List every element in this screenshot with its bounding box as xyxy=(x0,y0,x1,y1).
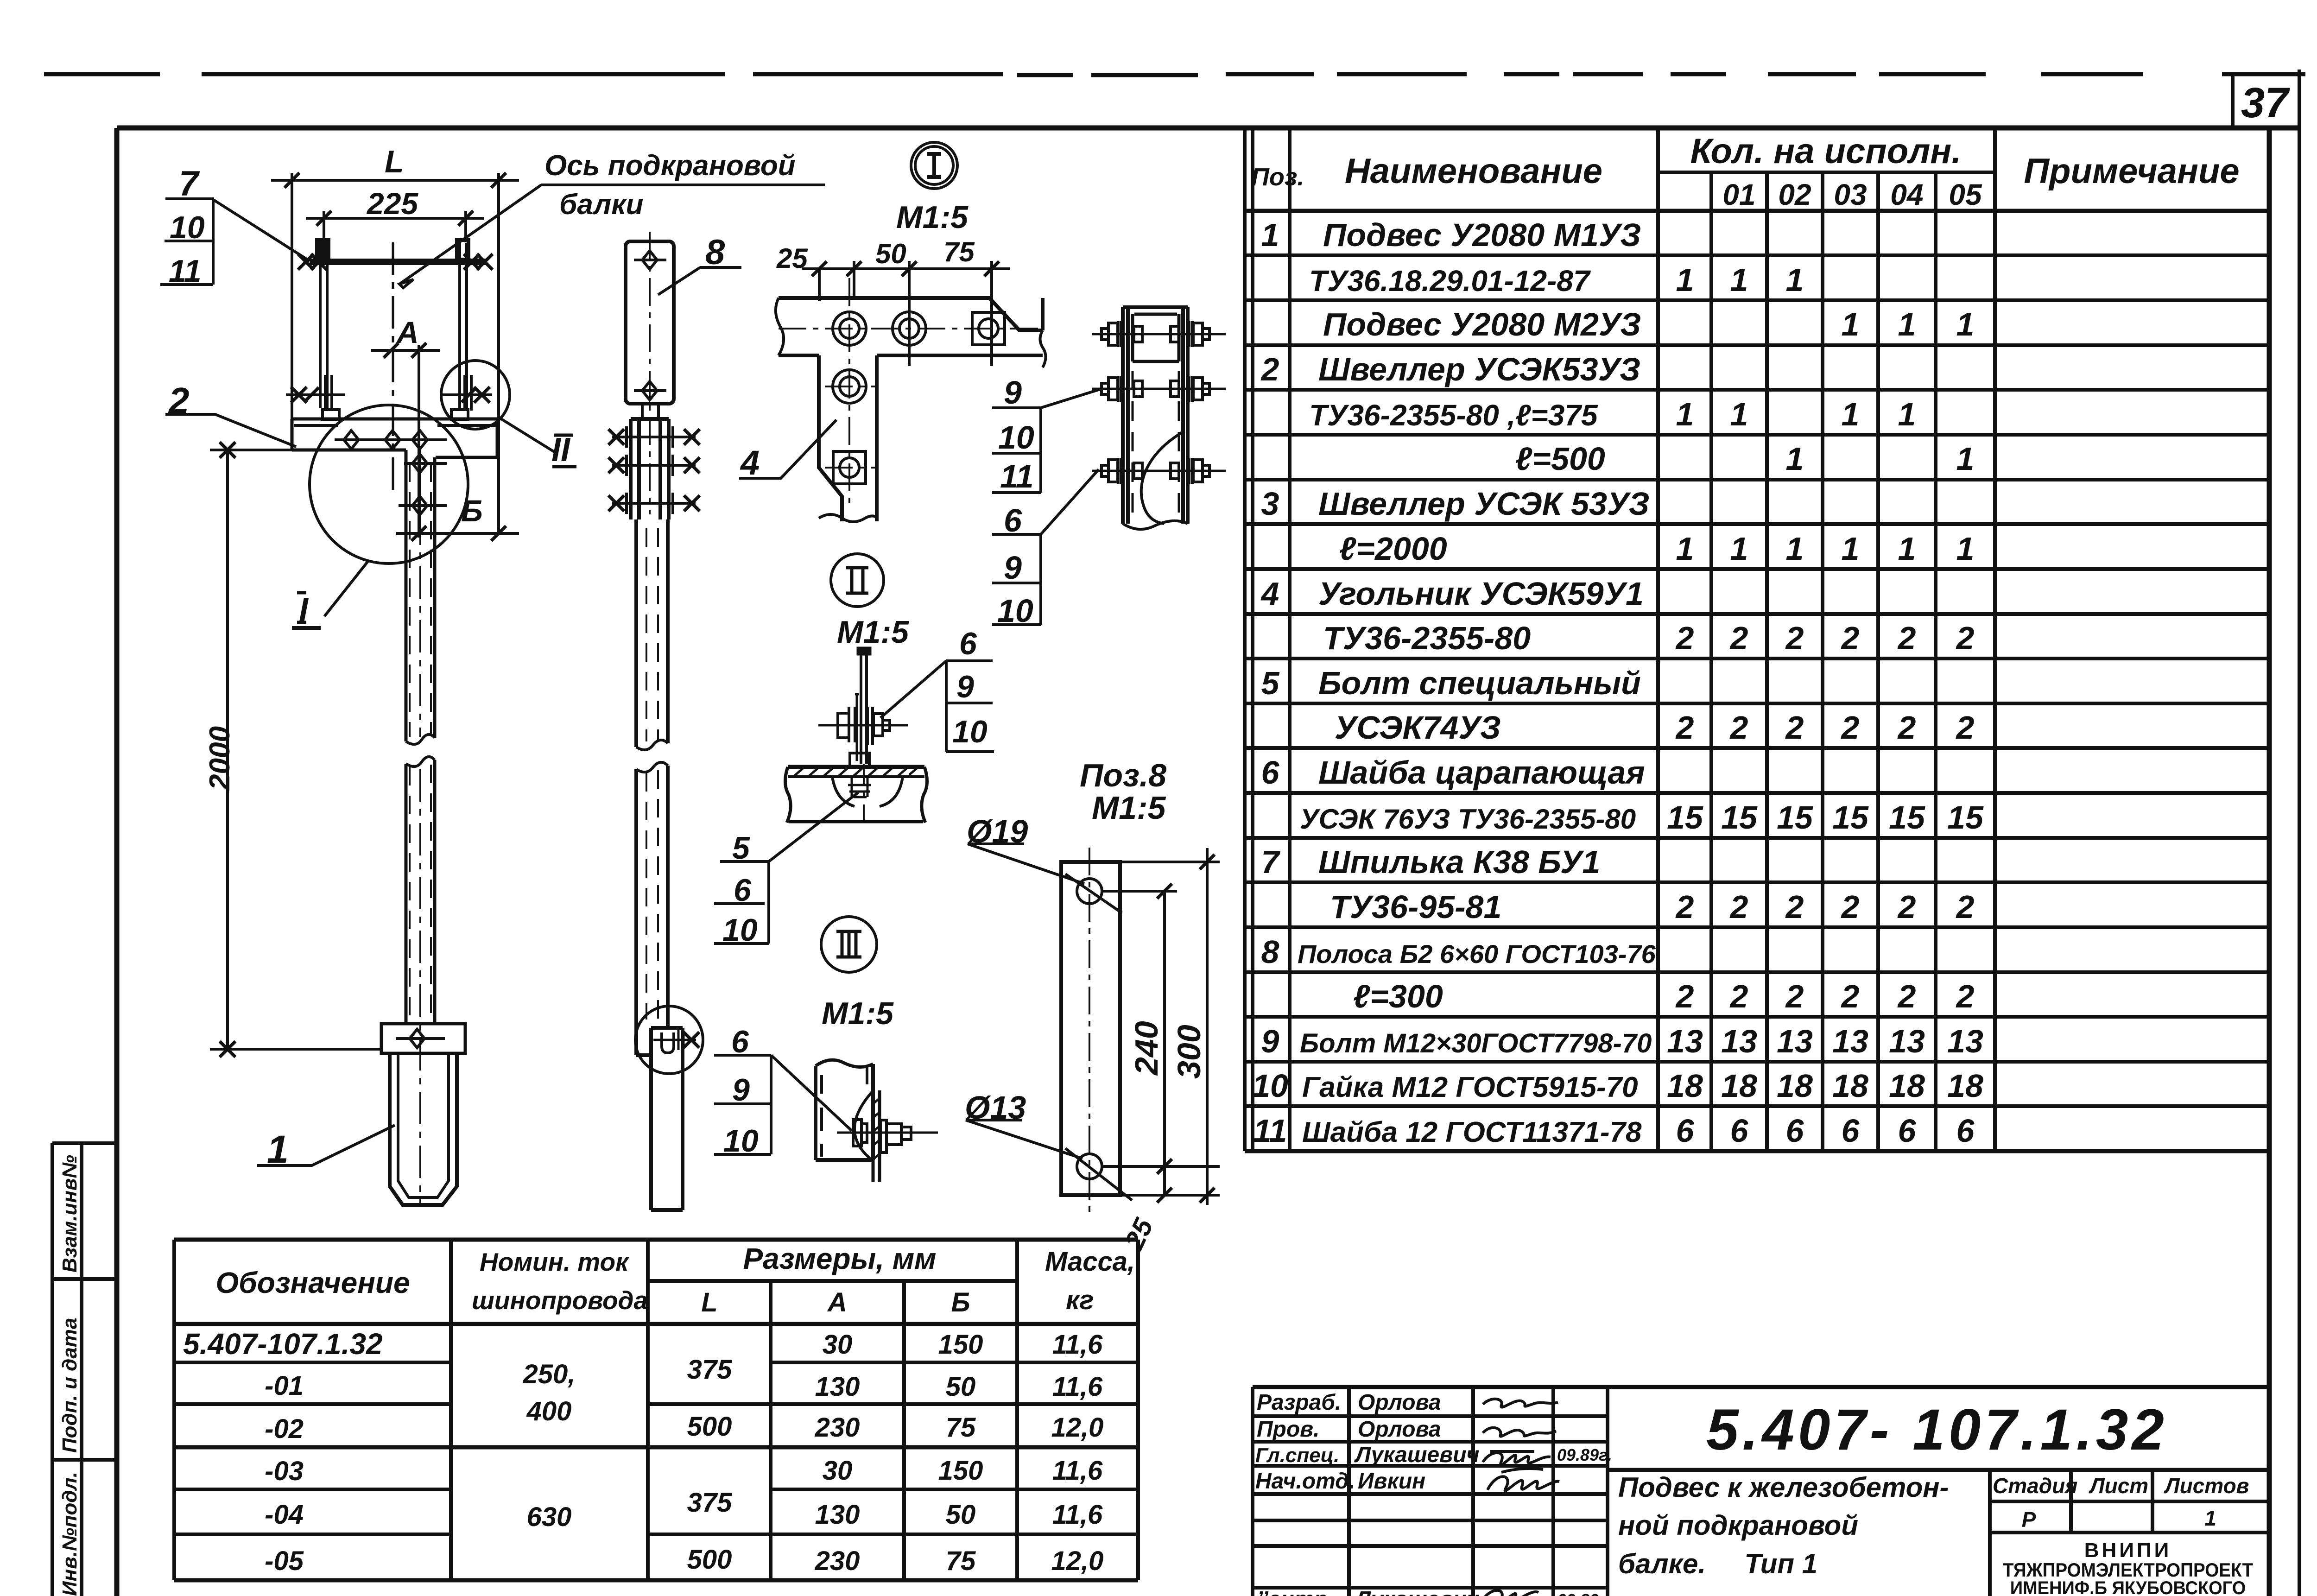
svg-text:01: 01 xyxy=(1722,178,1755,211)
svg-text:2000: 2000 xyxy=(204,726,236,791)
svg-text:Шайба царапающая: Шайба царапающая xyxy=(1318,754,1645,791)
svg-text:1: 1 xyxy=(2204,1506,2216,1530)
svg-text:13: 13 xyxy=(1832,1023,1868,1059)
svg-text:-03: -03 xyxy=(265,1456,304,1486)
symbol xyxy=(911,142,957,189)
svg-text:Орлова: Орлова xyxy=(1358,1390,1441,1415)
svg-text:150: 150 xyxy=(938,1456,983,1486)
svg-text:Угольник УСЭК59У1: Угольник УСЭК59У1 xyxy=(1318,576,1644,612)
svg-text:11,6: 11,6 xyxy=(1052,1330,1103,1360)
svg-text:2: 2 xyxy=(1841,620,1860,656)
svg-text:150: 150 xyxy=(938,1330,983,1360)
svg-text:А: А xyxy=(827,1287,847,1317)
svg-text:М1:5: М1:5 xyxy=(1092,790,1166,826)
svg-text:9: 9 xyxy=(1261,1023,1279,1059)
svg-text:18: 18 xyxy=(1947,1068,1983,1104)
svg-text:Гл.спец.: Гл.спец. xyxy=(1255,1444,1339,1467)
svg-text:375: 375 xyxy=(687,1355,733,1385)
svg-text:3: 3 xyxy=(1261,486,1279,522)
svg-text:Полоса Б2 6×60 ГОСТ103-76: Полоса Б2 6×60 ГОСТ103-76 xyxy=(1298,939,1656,969)
svg-text:15: 15 xyxy=(1947,799,1984,836)
svg-text:13: 13 xyxy=(1947,1023,1983,1059)
svg-text:балки: балки xyxy=(559,189,644,221)
svg-text:75: 75 xyxy=(943,236,975,267)
shelf holes xyxy=(335,431,447,524)
svg-text:ной подкрановой: ной подкрановой xyxy=(1618,1510,1858,1541)
labels 6/9/10 xyxy=(714,1055,852,1154)
svg-text:2: 2 xyxy=(1841,709,1860,746)
svg-text:375: 375 xyxy=(687,1488,733,1518)
dims 25 50 75 xyxy=(802,261,1010,366)
svg-text:10: 10 xyxy=(997,593,1033,629)
svg-text:1: 1 xyxy=(1261,217,1279,253)
svg-text:225: 225 xyxy=(366,186,418,221)
svg-text:ТУ36-2355-80 ,ℓ=375: ТУ36-2355-80 ,ℓ=375 xyxy=(1309,399,1598,432)
svg-text:1: 1 xyxy=(1842,396,1860,432)
svg-text:6: 6 xyxy=(1676,1113,1695,1149)
view mark I xyxy=(292,626,321,630)
svg-text:Инв.№подл.: Инв.№подл. xyxy=(58,1472,81,1596)
svg-text:Размеры, мм: Размеры, мм xyxy=(743,1242,936,1275)
svg-text:03: 03 xyxy=(1834,178,1867,211)
label 2 leader xyxy=(165,414,296,447)
svg-text:18: 18 xyxy=(1777,1068,1813,1104)
svg-text:1: 1 xyxy=(1786,531,1804,567)
svg-text:6: 6 xyxy=(959,626,977,661)
svg-text:ℓ=500: ℓ=500 xyxy=(1515,441,1605,477)
svg-text:Швеллер УСЭК53УЗ: Швеллер УСЭК53УЗ xyxy=(1318,351,1640,387)
svg-text:15: 15 xyxy=(1832,799,1869,836)
svg-text:9: 9 xyxy=(732,1072,750,1108)
svg-text:II: II xyxy=(551,431,571,469)
svg-text:13: 13 xyxy=(1721,1023,1757,1059)
neck xyxy=(642,404,658,419)
svg-text:09.89г: 09.89г xyxy=(1557,1590,1608,1596)
svg-text:15: 15 xyxy=(1721,799,1758,836)
hanger channel side xyxy=(636,519,668,1055)
svg-text:Листов: Листов xyxy=(2164,1474,2249,1498)
svg-text:1: 1 xyxy=(1842,531,1860,567)
svg-text:Ивкин: Ивкин xyxy=(1358,1469,1425,1494)
crater arc xyxy=(855,1092,872,1159)
hanger channel (pos 3) xyxy=(406,450,435,1205)
svg-text:13: 13 xyxy=(1889,1023,1925,1059)
svg-text:02: 02 xyxy=(1778,178,1811,211)
svg-text:10: 10 xyxy=(1252,1068,1288,1104)
svg-text:Гайка М12 ГОСТ5915-70: Гайка М12 ГОСТ5915-70 xyxy=(1302,1071,1638,1103)
svg-text:1: 1 xyxy=(1730,531,1748,567)
svg-text:Стадия: Стадия xyxy=(1993,1474,2077,1498)
svg-text:630: 630 xyxy=(527,1502,572,1532)
svg-text:М1:5: М1:5 xyxy=(896,200,969,235)
svg-text:1: 1 xyxy=(1786,262,1804,298)
svg-text:Р: Р xyxy=(2022,1507,2036,1532)
svg-text:6: 6 xyxy=(1730,1113,1749,1149)
svg-text:30: 30 xyxy=(823,1330,853,1360)
crater arcs and nut below flange xyxy=(832,777,903,806)
svg-text:18: 18 xyxy=(1667,1068,1703,1104)
strip pos 8 bottom xyxy=(651,1028,683,1210)
svg-text:2: 2 xyxy=(1675,889,1694,925)
svg-text:Швеллер УСЭК 53УЗ: Швеллер УСЭК 53УЗ xyxy=(1318,486,1650,522)
svg-text:15: 15 xyxy=(1667,799,1703,836)
svg-text:4: 4 xyxy=(740,443,760,482)
svg-text:2: 2 xyxy=(1897,709,1916,746)
svg-text:кг: кг xyxy=(1066,1285,1094,1315)
label 1 leader xyxy=(257,1125,395,1165)
svg-text:2: 2 xyxy=(1956,889,1975,925)
svg-text:6: 6 xyxy=(1786,1113,1804,1149)
svg-text:Примечание: Примечание xyxy=(2024,152,2239,191)
bolts xyxy=(833,312,1005,484)
svg-text:УСЭК 76УЗ ТУ36-2355-80: УСЭК 76УЗ ТУ36-2355-80 xyxy=(1300,804,1636,835)
svg-text:Болт М12×30ГОСТ7798-70: Болт М12×30ГОСТ7798-70 xyxy=(1300,1028,1652,1058)
U hook (pos 1) xyxy=(390,1053,457,1205)
svg-text:Масса,: Масса, xyxy=(1045,1247,1135,1277)
svg-text:2: 2 xyxy=(1675,620,1694,656)
svg-text:6: 6 xyxy=(1842,1113,1860,1149)
svg-text:8: 8 xyxy=(705,233,725,272)
svg-text:9: 9 xyxy=(956,669,974,704)
svg-text:Подвес У2080 М2УЗ: Подвес У2080 М2УЗ xyxy=(1323,306,1641,342)
svg-text:9: 9 xyxy=(1004,374,1022,411)
svg-text:Номин. ток: Номин. ток xyxy=(480,1248,630,1276)
scratching washer plate xyxy=(873,1090,880,1182)
svg-text:2: 2 xyxy=(1841,978,1860,1014)
svg-text:1: 1 xyxy=(1956,306,1975,342)
svg-text:2: 2 xyxy=(1897,889,1916,925)
svg-text:15: 15 xyxy=(1889,799,1925,836)
svg-text:12,0: 12,0 xyxy=(1051,1412,1104,1443)
svg-text:М1:5: М1:5 xyxy=(822,996,894,1031)
svg-text:7: 7 xyxy=(1261,844,1281,880)
svg-text:ИМЕНИФ.Б ЯКУБОВСКОГО: ИМЕНИФ.Б ЯКУБОВСКОГО xyxy=(2010,1578,2246,1596)
clamp plate at bottom (pos 1 top) xyxy=(381,1024,465,1053)
detail circle I xyxy=(310,405,468,564)
svg-text:1: 1 xyxy=(1898,531,1916,567)
axis leader xyxy=(399,185,541,288)
svg-text:Наименование: Наименование xyxy=(1345,152,1602,191)
svg-text:1: 1 xyxy=(1956,441,1975,477)
svg-text:Подвес к железобетон-: Подвес к железобетон- xyxy=(1618,1472,1949,1503)
svg-text:1: 1 xyxy=(1956,531,1975,567)
svg-text:11,6: 11,6 xyxy=(1052,1500,1103,1530)
label box 7/10/11 xyxy=(160,199,310,285)
svg-text:18: 18 xyxy=(1832,1068,1868,1104)
svg-text:L: L xyxy=(385,144,404,179)
stud rod right (pos 7) xyxy=(457,240,468,408)
dim A xyxy=(371,343,440,538)
svg-text:2: 2 xyxy=(1260,351,1279,387)
svg-text:2: 2 xyxy=(1897,620,1916,656)
svg-text:1: 1 xyxy=(1898,396,1916,432)
scratching washer prong (pos 6) xyxy=(855,693,859,761)
svg-text:ТУ36-2355-80: ТУ36-2355-80 xyxy=(1323,620,1531,656)
svg-text:2: 2 xyxy=(1785,709,1804,746)
bolts M12 rows xyxy=(1092,334,1226,471)
svg-text:8: 8 xyxy=(1261,934,1279,970)
svg-text:400: 400 xyxy=(526,1396,572,1426)
svg-text:2: 2 xyxy=(1729,978,1748,1014)
svg-text:Болт специальный: Болт специальный xyxy=(1318,665,1641,701)
svg-text:05: 05 xyxy=(1949,178,1982,211)
svg-text:10: 10 xyxy=(723,1123,759,1159)
title block text xyxy=(1255,1390,1612,1596)
svg-text:30: 30 xyxy=(823,1456,853,1486)
svg-text:Подп. и дата: Подп. и дата xyxy=(58,1318,81,1453)
joint sleeve channels xyxy=(1123,307,1188,524)
svg-text:2: 2 xyxy=(1785,978,1804,1014)
svg-text:Поз.8: Поз.8 xyxy=(1080,757,1166,793)
svg-text:5.407- 107.1.32: 5.407- 107.1.32 xyxy=(1706,1398,2168,1462)
svg-text:10: 10 xyxy=(722,912,758,948)
svg-text:230: 230 xyxy=(815,1546,860,1576)
svg-text:4: 4 xyxy=(1260,576,1279,612)
svg-text:04: 04 xyxy=(1890,178,1923,211)
labels 5/6/10 xyxy=(714,792,858,944)
svg-text:Кол. на исполн.: Кол. на исполн. xyxy=(1690,132,1962,171)
svg-text:11: 11 xyxy=(1000,458,1034,494)
svg-text:5: 5 xyxy=(1261,665,1280,701)
svg-text:М1:5: М1:5 xyxy=(837,614,909,650)
svg-text:2: 2 xyxy=(1841,889,1860,925)
svg-text:6: 6 xyxy=(1261,754,1280,791)
svg-text:Ось подкрановой: Ось подкрановой xyxy=(544,150,796,182)
dim 2000 xyxy=(210,442,381,1057)
svg-text:-01: -01 xyxy=(265,1371,304,1401)
svg-text:10: 10 xyxy=(170,210,205,245)
svg-text:25: 25 xyxy=(776,243,808,274)
svg-text:Орлова: Орлова xyxy=(1358,1417,1441,1442)
svg-text:Пров.: Пров. xyxy=(1257,1417,1320,1442)
svg-text:13: 13 xyxy=(1777,1023,1813,1059)
svg-text:7: 7 xyxy=(179,164,200,203)
svg-text:Б: Б xyxy=(461,494,483,528)
detail circle III on view xyxy=(635,1006,703,1074)
channel head with bolts xyxy=(631,419,669,519)
lower clamp nut xyxy=(850,753,869,767)
svg-text:11,6: 11,6 xyxy=(1052,1372,1103,1402)
svg-text:9: 9 xyxy=(1004,550,1022,586)
svg-text:2: 2 xyxy=(1785,889,1804,925)
svg-text:Поз.: Поз. xyxy=(1251,163,1304,191)
svg-text:6: 6 xyxy=(1004,502,1022,538)
svg-text:-04: -04 xyxy=(265,1500,304,1530)
svg-text:75: 75 xyxy=(946,1412,976,1443)
svg-text:2: 2 xyxy=(1956,978,1975,1014)
dim 225 xyxy=(306,211,484,242)
shelf channel (pos 2) xyxy=(292,419,497,457)
svg-text:А: А xyxy=(396,315,419,349)
svg-text:130: 130 xyxy=(815,1500,860,1530)
svg-text:230: 230 xyxy=(815,1412,860,1443)
svg-text:12,0: 12,0 xyxy=(1051,1546,1104,1576)
svg-text:1: 1 xyxy=(1786,441,1804,477)
svg-text:250,: 250, xyxy=(523,1359,576,1389)
table body text xyxy=(1252,217,1984,1149)
svg-text:1: 1 xyxy=(1898,306,1916,342)
svg-text:-02: -02 xyxy=(265,1414,304,1444)
svg-text:18: 18 xyxy=(1889,1068,1925,1104)
svg-text:2: 2 xyxy=(1729,709,1748,746)
nut+washer assembly right (pos 6,9,10) xyxy=(441,375,492,420)
svg-text:2: 2 xyxy=(1956,620,1975,656)
labels 9/10/11 xyxy=(992,389,1100,493)
nut cluster on bolt xyxy=(818,724,908,727)
svg-text:500: 500 xyxy=(687,1412,732,1442)
dim B xyxy=(396,526,519,541)
svg-text:6: 6 xyxy=(1956,1113,1975,1149)
detail circle II xyxy=(441,361,510,429)
dim L xyxy=(271,173,519,533)
svg-text:75: 75 xyxy=(946,1546,976,1576)
plate pos 8 xyxy=(626,241,674,404)
signatures (script squiggles) xyxy=(1483,1399,1559,1596)
svg-text:11: 11 xyxy=(1253,1113,1287,1149)
svg-text:10: 10 xyxy=(998,419,1034,456)
svg-text:50: 50 xyxy=(875,238,906,269)
svg-text:2: 2 xyxy=(1675,709,1694,746)
beam axis centerline xyxy=(392,242,394,491)
svg-text:Обозначение: Обозначение xyxy=(215,1266,410,1299)
svg-text:240: 240 xyxy=(1128,1021,1165,1076)
svg-text:Б: Б xyxy=(951,1287,970,1317)
dims xyxy=(1165,848,1207,1205)
svg-text:1: 1 xyxy=(1676,531,1694,567)
svg-text:ТУ36-95-81: ТУ36-95-81 xyxy=(1330,889,1501,925)
svg-text:Лукашевич: Лукашевич xyxy=(1354,1443,1480,1467)
sheet number box 37 xyxy=(2233,70,2299,1596)
svg-text:500: 500 xyxy=(687,1545,732,1575)
channel piece xyxy=(816,1064,873,1160)
svg-text:2: 2 xyxy=(1956,709,1975,746)
svg-text:11,6: 11,6 xyxy=(1052,1456,1103,1486)
bolt xyxy=(837,1132,938,1134)
svg-text:2: 2 xyxy=(1675,978,1694,1014)
svg-text:Ø13: Ø13 xyxy=(965,1089,1026,1126)
svg-text:6: 6 xyxy=(1898,1113,1917,1149)
top scan broken line xyxy=(44,74,2305,75)
svg-text:Разраб.: Разраб. xyxy=(1257,1390,1341,1415)
labels 6/9/10 right of detail II xyxy=(880,661,994,752)
bottom bolt with scratching washer xyxy=(653,1039,696,1041)
svg-text:5: 5 xyxy=(732,830,750,866)
angle piece xyxy=(779,298,1043,521)
svg-text:балке. Тип 1: балке. Тип 1 xyxy=(1618,1548,1817,1579)
svg-text:Ø19: Ø19 xyxy=(967,813,1028,849)
stud rod left (pos 7) xyxy=(317,240,329,408)
svg-text:10: 10 xyxy=(952,714,988,749)
svg-text:5.407-107.1.32: 5.407-107.1.32 xyxy=(183,1327,383,1361)
svg-text:ℓ=2000: ℓ=2000 xyxy=(1339,531,1447,567)
svg-text:6: 6 xyxy=(734,873,752,908)
special bolt shaft (pos 5) xyxy=(861,651,867,764)
svg-text:2: 2 xyxy=(1729,889,1748,925)
svg-text:300: 300 xyxy=(1171,1025,1207,1079)
bottom-left table text xyxy=(183,1242,1135,1576)
svg-text:50: 50 xyxy=(946,1372,976,1402)
svg-text:2: 2 xyxy=(168,380,190,421)
crane beam flange bar xyxy=(298,254,493,270)
label 4 xyxy=(739,420,836,478)
svg-text:50: 50 xyxy=(946,1500,976,1530)
svg-text:15: 15 xyxy=(1777,799,1813,836)
svg-text:Лист: Лист xyxy=(2089,1474,2148,1498)
svg-text:1: 1 xyxy=(267,1127,289,1171)
svg-text:Взам.инв№: Взам.инв№ xyxy=(58,1155,81,1273)
svg-text:130: 130 xyxy=(815,1372,860,1402)
channel flange slab (hatched top) xyxy=(788,765,924,769)
labels 6/9/10 xyxy=(992,469,1099,625)
label 8 xyxy=(658,267,741,295)
svg-text:Нач.отд.: Нач.отд. xyxy=(1255,1469,1355,1494)
svg-text:ℓ=300: ℓ=300 xyxy=(1353,978,1443,1014)
f13 xyxy=(966,1120,1083,1159)
svg-text:1: 1 xyxy=(1842,306,1860,342)
f19 xyxy=(968,844,1084,884)
svg-text:11: 11 xyxy=(169,253,202,289)
svg-text:09.89г.: 09.89г. xyxy=(1557,1445,1612,1464)
svg-text:2: 2 xyxy=(1897,978,1916,1014)
svg-text:2: 2 xyxy=(1729,620,1748,656)
svg-text:1: 1 xyxy=(1730,262,1748,298)
svg-text:18: 18 xyxy=(1721,1068,1757,1104)
svg-text:1: 1 xyxy=(1676,396,1694,432)
svg-text:шинопровода: шинопровода xyxy=(472,1286,648,1315)
svg-text:Шпилька К38 БУ1: Шпилька К38 БУ1 xyxy=(1318,844,1600,880)
svg-text:УСЭК74УЗ: УСЭК74УЗ xyxy=(1335,709,1501,746)
svg-text:1: 1 xyxy=(1730,396,1748,432)
svg-text:13: 13 xyxy=(1667,1023,1703,1059)
svg-text:L: L xyxy=(701,1287,717,1317)
front view texts xyxy=(168,144,825,1171)
nut+washer assembly left (pos 6,9,10) xyxy=(286,375,345,420)
svg-text:-05: -05 xyxy=(265,1546,304,1576)
svg-text:2: 2 xyxy=(1785,620,1804,656)
svg-text:Шайба 12 ГОСТ11371-78: Шайба 12 ГОСТ11371-78 xyxy=(1302,1116,1642,1148)
svg-text:1: 1 xyxy=(1676,262,1694,298)
svg-text:37: 37 xyxy=(2241,79,2290,127)
svg-text:6: 6 xyxy=(731,1024,749,1059)
svg-text:ТУ36.18.29.01-12-87: ТУ36.18.29.01-12-87 xyxy=(1309,264,1591,298)
svg-text:Подвес У2080 М1УЗ: Подвес У2080 М1УЗ xyxy=(1323,217,1641,253)
